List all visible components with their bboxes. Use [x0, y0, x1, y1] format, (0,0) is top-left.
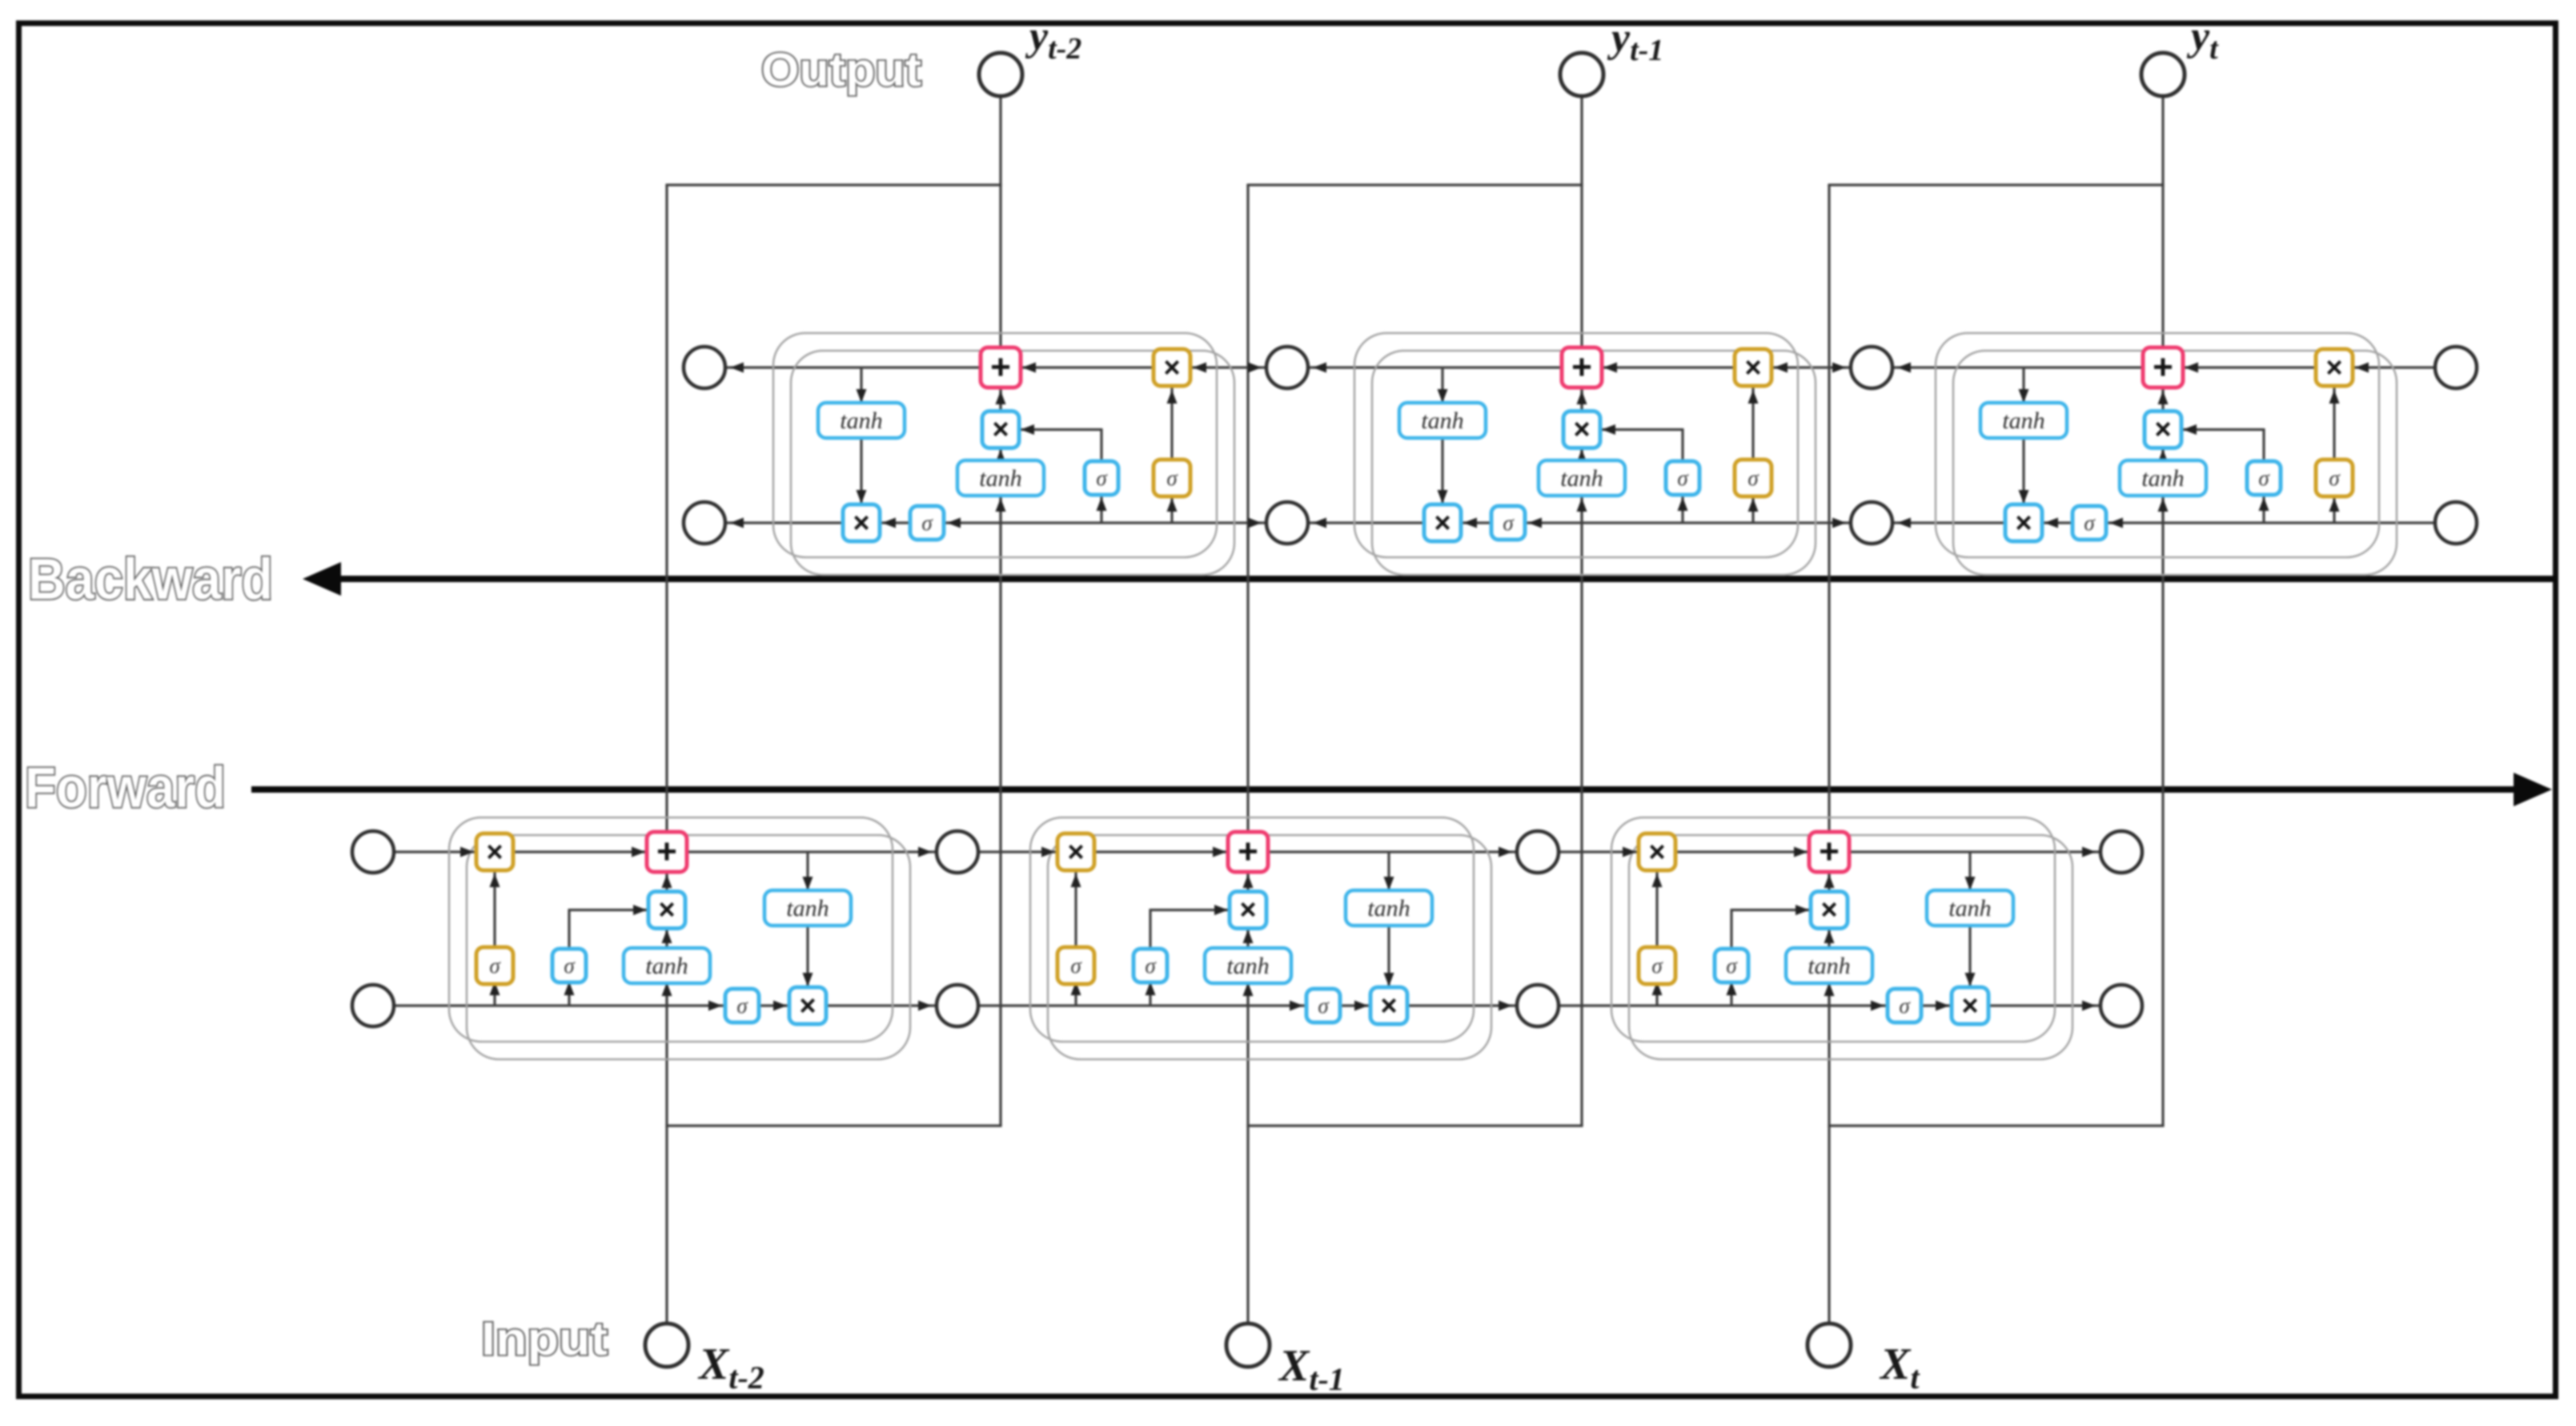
node circle forward row top #2	[937, 831, 978, 873]
svg-text:σ: σ	[1503, 511, 1515, 535]
wire: hidden tap up to left sigma (F2)	[1149, 983, 1151, 1006]
multiply gate (input x candidate) B2	[1563, 412, 1600, 448]
multiply gate on hidden line B2	[1424, 504, 1461, 541]
svg-text:tanh: tanh	[2002, 408, 2044, 434]
wire: orange sigma up to orange multiply (B1)	[1170, 387, 1173, 460]
wire: hidden tap up to orange sigma (B2)	[1751, 496, 1754, 523]
wire: cell-state tap down to tanh (B1)	[860, 368, 862, 403]
input node X_t-1	[1226, 1324, 1270, 1367]
node circle forward row top #3	[1517, 831, 1559, 873]
node circle backward row top #4	[2435, 347, 2477, 388]
svg-text:Backward: Backward	[28, 548, 273, 612]
node circle backward row bottom #4	[2435, 502, 2477, 544]
svg-text:×: ×	[658, 893, 675, 926]
svg-text:tanh: tanh	[1560, 465, 1603, 492]
LSTM backward cell B2 rounded outline (double)	[1354, 333, 1798, 557]
wire: orange sigma up to orange multiply (F3)	[1655, 871, 1658, 947]
sigma forget-gate B2	[1735, 460, 1772, 496]
svg-text:+: +	[656, 832, 677, 871]
svg-text:×: ×	[853, 506, 869, 539]
wire: hidden tap up to right sigma (B1)	[1100, 496, 1102, 523]
sigma forget-gate B1	[1154, 460, 1190, 496]
multiply gate (input x candidate) F1	[648, 892, 685, 929]
svg-text:+: +	[1238, 832, 1258, 871]
multiply gate (input x candidate) F2	[1230, 892, 1266, 929]
wire: cell-state tap down to tanh (F2)	[1387, 852, 1390, 890]
svg-text:tanh: tanh	[1226, 953, 1269, 979]
plus gate (cell-state add) B3	[2143, 347, 2183, 388]
plus gate (cell-state add) B1	[981, 347, 1021, 388]
multiply gate (input x candidate) F3	[1811, 892, 1848, 929]
svg-text:×: ×	[1820, 893, 1837, 926]
LSTM forward cell F1 rounded outline (double)	[449, 817, 893, 1042]
multiply forget-gate B2	[1735, 349, 1772, 386]
output node y_t	[2141, 53, 2185, 96]
wire: sigma up-bend into multiply (B1)	[1100, 428, 1102, 461]
wire: cell-state tap down to tanh (B2)	[1441, 368, 1443, 403]
svg-text:σ: σ	[1166, 466, 1178, 490]
wire: input rail x_t-2 vertical	[665, 185, 668, 1324]
wire: backward row cell-state line	[704, 366, 2456, 368]
node circle backward row top #3	[1851, 347, 1892, 388]
sigma forget-gate B3	[2316, 460, 2353, 496]
wire: forward row hidden-state line	[373, 1004, 2121, 1006]
wire: forward row cell-state line	[373, 850, 2121, 853]
wire: output rail y_t vertical	[2161, 96, 2164, 1126]
sigma output-gate on hidden line B2	[1491, 506, 1525, 540]
plus gate (cell-state add) B2	[1562, 347, 1602, 388]
sigma output-gate on hidden line F3	[1888, 989, 1921, 1022]
wire: centre tanh up to multiply (B3)	[2161, 448, 2164, 460]
wire: multiply up to plus (F3)	[1828, 872, 1830, 891]
multiply gate (input x candidate) B3	[2145, 412, 2181, 448]
wire: orange sigma up to orange multiply (B3)	[2333, 387, 2335, 460]
svg-text:Xt-2: Xt-2	[697, 1340, 764, 1396]
wire: hidden tap up to left sigma (F3)	[1730, 983, 1732, 1006]
sigma input-gate B1	[1085, 461, 1118, 495]
svg-text:σ: σ	[564, 954, 576, 978]
wire: cell-state tap down to tanh (F3)	[1968, 852, 1971, 890]
svg-text:σ: σ	[1318, 994, 1330, 1018]
svg-text:tanh: tanh	[786, 895, 829, 922]
sigma output-gate on hidden line B3	[2072, 506, 2106, 540]
wire: multiply up to plus (B3)	[2161, 388, 2164, 411]
wire: tanh down to multiply (F2)	[1387, 926, 1390, 987]
wire: multiply up to plus (B2)	[1580, 388, 1583, 411]
wire: centre tanh up to multiply (F1)	[665, 928, 668, 948]
flow arrowheads (B2)	[1603, 363, 1617, 373]
plus gate (cell-state add) F3	[1809, 832, 1849, 872]
Forward direction arrow (thick, pointing right)	[251, 786, 2515, 793]
flow arrowheads (F1)	[460, 847, 474, 858]
output node y_t-2	[979, 53, 1022, 96]
node circle forward row bottom #3	[1517, 985, 1559, 1026]
LSTM backward cell B3 rounded outline (double)	[1936, 333, 2379, 557]
multiply gate (input x candidate) B1	[982, 412, 1019, 448]
node circle backward row top #1	[684, 347, 725, 388]
wire: tanh down to multiply (B2)	[1441, 438, 1443, 504]
wire: hidden tap up to centre tanh (B1)	[999, 496, 1001, 523]
svg-text:×: ×	[2325, 351, 2342, 384]
svg-text:σ: σ	[1899, 994, 1911, 1018]
multiply gate on hidden line F2	[1370, 987, 1407, 1024]
svg-text:σ: σ	[921, 511, 933, 535]
wire: multiply up to plus (F2)	[1246, 872, 1249, 891]
svg-text:tanh: tanh	[840, 408, 882, 434]
wire: sigma up-bend into multiply (F3)	[1730, 909, 1732, 948]
wire: hidden tap up to orange sigma (F2)	[1074, 984, 1077, 1006]
svg-text:×: ×	[1239, 893, 1256, 926]
tanh gate (candidate) B1	[957, 460, 1044, 496]
wire: input rail x_t vertical	[1828, 185, 1830, 1324]
wire: hidden tap up to centre tanh (F2)	[1246, 983, 1249, 1006]
tanh gate (cell output) F3	[1927, 890, 2013, 926]
wire: bottom jog column 1	[665, 1124, 1001, 1127]
sigma forget-gate F2	[1057, 947, 1094, 984]
svg-text:σ: σ	[1145, 954, 1157, 978]
wire: input rail x_t-1 vertical	[1246, 185, 1249, 1324]
flow arrowheads (F2)	[1041, 847, 1055, 858]
wire: tanh down to multiply (F3)	[1968, 926, 1971, 987]
multiply forget-gate B3	[2316, 349, 2353, 386]
sigma forget-gate F3	[1639, 947, 1675, 984]
wire: hidden tap up to orange sigma (B1)	[1170, 496, 1173, 523]
svg-text:Xt: Xt	[1879, 1340, 1920, 1396]
wire: top jog column 1	[665, 183, 1001, 186]
wire: cell-state tap down to tanh (F1)	[806, 852, 809, 890]
multiply gate on hidden line F3	[1952, 987, 1988, 1024]
tanh gate (candidate) F2	[1205, 948, 1291, 983]
wire: hidden tap up to right sigma (B3)	[2262, 496, 2265, 523]
flow arrowheads (B3)	[2185, 363, 2198, 373]
multiply gate on hidden line F1	[789, 987, 826, 1024]
LSTM backward cell B1 rounded outline (double)	[773, 333, 1217, 557]
wire: output rail y_t-1 vertical	[1580, 96, 1583, 1126]
node circle forward row top #4	[2101, 831, 2142, 873]
svg-text:σ: σ	[1747, 466, 1759, 490]
svg-text:+: +	[2153, 347, 2173, 387]
node circle forward row bottom #1	[352, 985, 394, 1026]
svg-text:σ: σ	[2258, 466, 2270, 490]
tanh gate (cell output) B1	[818, 403, 905, 438]
svg-text:×: ×	[1744, 351, 1761, 384]
svg-text:σ: σ	[1677, 466, 1689, 490]
wire: centre tanh up to multiply (F3)	[1828, 928, 1830, 948]
svg-text:Input: Input	[481, 1313, 608, 1365]
wire: centre tanh up to multiply (B1)	[999, 448, 1001, 460]
node circle forward row top #1	[352, 831, 394, 873]
sigma output-gate on hidden line F2	[1306, 989, 1340, 1022]
wire: orange sigma up to orange multiply (F1)	[493, 871, 496, 947]
tanh gate (candidate) B2	[1539, 460, 1625, 496]
wire: centre tanh up to multiply (F2)	[1246, 928, 1249, 948]
svg-text:×: ×	[1648, 835, 1665, 868]
wire: top jog column 3	[1828, 183, 2164, 186]
node circle forward row bottom #4	[2101, 985, 2142, 1026]
sigma input-gate B3	[2247, 461, 2281, 495]
sigma output-gate on hidden line B1	[910, 506, 944, 540]
svg-text:tanh: tanh	[1948, 895, 1991, 922]
wire: multiply up to plus (F1)	[665, 872, 668, 891]
svg-text:×: ×	[1380, 989, 1397, 1022]
LSTM forward cell F3 rounded outline (double)	[1611, 817, 2055, 1042]
svg-text:Xt-1: Xt-1	[1278, 1341, 1345, 1397]
svg-text:×: ×	[2154, 412, 2171, 445]
wire: bottom jog column 3	[1828, 1124, 2164, 1127]
tanh gate (candidate) F3	[1786, 948, 1872, 983]
wire: output rail y_t-2 vertical	[999, 96, 1001, 1126]
tanh gate (candidate) B3	[2120, 460, 2206, 496]
wire: bottom jog column 2	[1246, 1124, 1583, 1127]
svg-text:×: ×	[2015, 506, 2032, 539]
sigma input-gate F1	[552, 949, 586, 982]
svg-text:tanh: tanh	[1808, 953, 1850, 979]
sigma input-gate F2	[1134, 949, 1167, 982]
wire: tanh down to multiply (F1)	[806, 926, 809, 987]
LSTM forward cell F2 rounded outline (double)	[1030, 817, 1474, 1042]
Backward direction arrow (thick, pointing left)	[336, 576, 2556, 582]
wire: orange sigma up to orange multiply (F2)	[1074, 871, 1077, 947]
svg-text:tanh: tanh	[979, 465, 1021, 492]
wire: hidden tap up to orange sigma (F3)	[1655, 984, 1658, 1006]
svg-text:×: ×	[1961, 989, 1978, 1022]
node circle backward row top #2	[1266, 347, 1308, 388]
wire: hidden tap up to orange sigma (F1)	[493, 984, 496, 1006]
sigma input-gate B2	[1666, 461, 1699, 495]
tanh gate (cell output) F2	[1346, 890, 1432, 926]
tanh gate (cell output) F1	[764, 890, 851, 926]
svg-text:σ: σ	[1651, 954, 1663, 978]
plus gate (cell-state add) F2	[1228, 832, 1268, 872]
svg-text:tanh: tanh	[1421, 408, 1463, 434]
svg-text:×: ×	[1067, 835, 1084, 868]
wire: hidden tap up to orange sigma (B3)	[2333, 496, 2335, 523]
multiply forget-gate F3	[1639, 834, 1675, 870]
wire: hidden tap up to centre tanh (F1)	[665, 983, 668, 1006]
wire: centre tanh up to multiply (B2)	[1580, 448, 1583, 460]
svg-text:σ: σ	[2084, 511, 2096, 535]
wire: sigma up-bend into multiply (B3)	[2262, 428, 2265, 461]
output node y_t-1	[1560, 53, 1603, 96]
svg-text:×: ×	[1434, 506, 1451, 539]
svg-text:+: +	[1571, 347, 1592, 387]
svg-text:Forward: Forward	[25, 757, 226, 820]
svg-text:×: ×	[992, 412, 1009, 445]
multiply forget-gate F2	[1057, 834, 1094, 870]
svg-text:σ: σ	[1726, 954, 1738, 978]
svg-text:tanh: tanh	[1367, 895, 1410, 922]
svg-text:×: ×	[1163, 351, 1180, 384]
tanh gate (candidate) F1	[624, 948, 710, 983]
wire: hidden tap up to right sigma (B2)	[1681, 496, 1683, 523]
wire: sigma up-bend into multiply (F1)	[568, 909, 570, 948]
tanh gate (cell output) B2	[1399, 403, 1486, 438]
wire: hidden tap up to centre tanh (B2)	[1580, 496, 1583, 523]
sigma forget-gate F1	[476, 947, 513, 984]
wire: hidden tap up to centre tanh (B3)	[2161, 496, 2164, 523]
multiply gate on hidden line B1	[843, 504, 880, 541]
input node X_t	[1808, 1324, 1851, 1367]
flow arrowheads (B1)	[1022, 363, 1036, 373]
svg-text:×: ×	[1573, 412, 1590, 445]
wire: backward row hidden-state line	[704, 521, 2456, 524]
sigma input-gate F3	[1715, 949, 1748, 982]
svg-text:+: +	[1819, 832, 1840, 871]
flow arrowheads at forward-row node circles	[918, 847, 932, 858]
svg-text:σ: σ	[2329, 466, 2341, 490]
multiply gate on hidden line B3	[2005, 504, 2042, 541]
svg-text:×: ×	[486, 835, 503, 868]
svg-text:σ: σ	[1070, 954, 1082, 978]
wire: sigma up-bend into multiply (B2)	[1681, 428, 1683, 461]
multiply forget-gate B1	[1154, 349, 1190, 386]
svg-text:tanh: tanh	[645, 953, 688, 979]
svg-text:Output: Output	[761, 44, 921, 96]
tanh gate (cell output) B3	[1980, 403, 2067, 438]
wire: orange sigma up to orange multiply (B2)	[1751, 387, 1754, 460]
svg-text:σ: σ	[736, 994, 748, 1018]
wire: hidden tap up to left sigma (F1)	[568, 983, 570, 1006]
node circle forward row bottom #2	[937, 985, 978, 1026]
wire: hidden tap up to centre tanh (F3)	[1828, 983, 1830, 1006]
wire: tanh down to multiply (B1)	[860, 438, 862, 504]
multiply forget-gate F1	[476, 834, 513, 870]
svg-text:tanh: tanh	[2141, 465, 2184, 492]
wire: cell-state tap down to tanh (B3)	[2022, 368, 2024, 403]
svg-text:σ: σ	[489, 954, 501, 978]
svg-text:+: +	[990, 347, 1011, 387]
flow arrowheads (F3)	[1623, 847, 1636, 858]
flow arrowheads at backward-row node circles	[730, 363, 744, 373]
svg-text:σ: σ	[1096, 466, 1108, 490]
svg-text:×: ×	[799, 989, 816, 1022]
input node X_t-2	[645, 1324, 688, 1367]
node circle backward row bottom #3	[1851, 502, 1892, 544]
node circle backward row bottom #2	[1266, 502, 1308, 544]
wire: top jog column 2	[1246, 183, 1583, 186]
wire: sigma up-bend into multiply (F2)	[1149, 909, 1151, 948]
wire: multiply up to plus (B1)	[999, 388, 1001, 411]
node circle backward row bottom #1	[684, 502, 725, 544]
sigma output-gate on hidden line F1	[725, 989, 759, 1022]
plus gate (cell-state add) F1	[647, 832, 687, 872]
wire: tanh down to multiply (B3)	[2022, 438, 2024, 504]
